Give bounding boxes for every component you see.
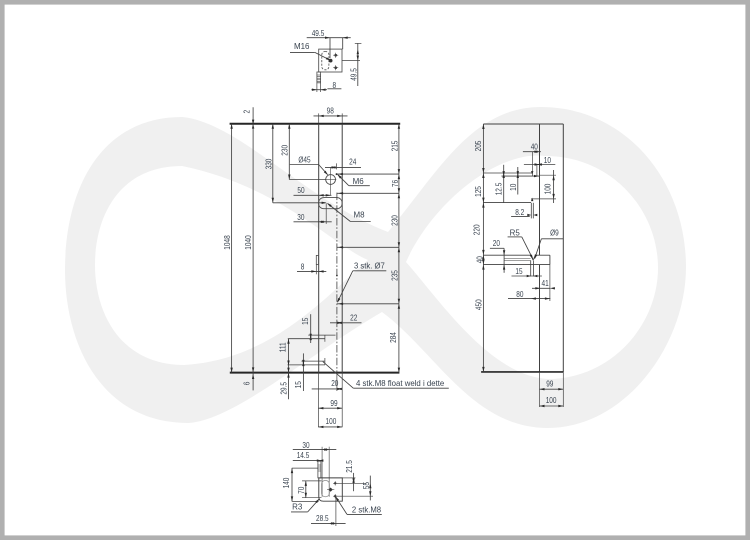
- bottom bracket slot: [322, 481, 330, 497]
- extension line bracket to vertical dim: [342, 60, 360, 62]
- svg-text:99: 99: [546, 379, 553, 389]
- side view top edge: [483, 123, 563, 125]
- svg-text:284: 284: [388, 332, 398, 343]
- side view plate left edge lower: [539, 265, 541, 372]
- stud tab bottom view: [318, 461, 321, 478]
- svg-text:M16: M16: [294, 42, 310, 51]
- bottom bracket lower line 2: [288, 364, 326, 366]
- svg-text:15: 15: [300, 318, 310, 325]
- svg-text:50: 50: [297, 185, 304, 195]
- gray frame right bar: [745, 0, 750, 540]
- svg-text:R3: R3: [292, 502, 303, 511]
- svg-text:450: 450: [474, 299, 484, 310]
- svg-text:100: 100: [325, 416, 336, 426]
- flange slot verticals below: [530, 261, 532, 277]
- extension line at slot center level with arrow: [273, 202, 326, 204]
- side boundary line at M6 level: [483, 172, 532, 174]
- gray frame bottom bar: [0, 535, 750, 540]
- svg-text:230: 230: [390, 215, 400, 226]
- main view lower extension lines: [317, 373, 319, 428]
- svg-text:Ø9: Ø9: [550, 228, 559, 238]
- extension line M6 column: [336, 163, 338, 169]
- svg-text:28.5: 28.5: [316, 513, 329, 523]
- dim 140 extension bottom: [292, 500, 319, 502]
- top detail hole upper: [334, 54, 337, 57]
- slot bracket front view stadium: [319, 198, 343, 209]
- svg-text:215: 215: [390, 141, 400, 152]
- svg-text:10: 10: [544, 155, 551, 165]
- boundary line 76-230: [337, 192, 399, 194]
- dim 55 extension lines: [335, 482, 366, 484]
- svg-text:49.5: 49.5: [349, 68, 359, 81]
- svg-text:Ø45: Ø45: [298, 155, 310, 165]
- svg-text:2 stk.M8: 2 stk.M8: [352, 505, 382, 514]
- svg-text:22: 22: [350, 313, 357, 323]
- gray frame left bar: [0, 0, 5, 540]
- side view bottom edge: [481, 371, 563, 373]
- svg-text:140: 140: [281, 478, 291, 489]
- svg-text:21.5: 21.5: [344, 460, 354, 473]
- threaded stud below bracket: [317, 72, 321, 83]
- svg-text:M6: M6: [353, 177, 365, 186]
- side view lower extension lines: [539, 372, 541, 407]
- side dim stack line: [482, 124, 484, 372]
- flange stud hidden lines: [504, 257, 530, 259]
- gray frame top bar: [0, 0, 750, 5]
- svg-text:49.5: 49.5: [312, 28, 325, 38]
- tab extension line down: [315, 265, 317, 275]
- svg-text:230: 230: [280, 145, 290, 156]
- side marker arrows on slot: [531, 171, 533, 175]
- centerline of holes dash-dot: [336, 193, 338, 373]
- svg-text:24: 24: [349, 156, 356, 166]
- side boundary line 125-220: [483, 202, 531, 204]
- svg-text:1048: 1048: [222, 235, 232, 249]
- svg-text:29.5: 29.5: [279, 382, 289, 395]
- svg-text:14.5: 14.5: [297, 450, 310, 460]
- svg-text:220: 220: [472, 224, 482, 235]
- svg-text:111: 111: [278, 342, 288, 352]
- svg-text:41: 41: [541, 278, 548, 288]
- svg-text:100: 100: [543, 184, 553, 195]
- bottom bracket plate right edge: [324, 335, 326, 342]
- svg-text:20: 20: [493, 238, 500, 248]
- svg-text:6: 6: [242, 382, 252, 386]
- svg-text:10: 10: [508, 184, 518, 191]
- hole mark on centerline mid: [336, 275, 338, 277]
- top detail M16 center mark: [329, 59, 333, 63]
- svg-text:20: 20: [331, 378, 338, 388]
- right dim stack line: [398, 124, 400, 373]
- svg-text:15: 15: [293, 381, 303, 388]
- svg-text:8: 8: [301, 261, 305, 271]
- side feature line below M6: [502, 175, 540, 177]
- svg-text:80: 80: [516, 289, 523, 299]
- bottom bracket top line 2: [288, 338, 325, 340]
- svg-text:8.2: 8.2: [515, 207, 524, 217]
- centerline extension bottom: [336, 373, 338, 391]
- svg-text:M8: M8: [353, 210, 365, 219]
- bottom bracket lower line 1: [302, 360, 326, 362]
- bottom bracket plate right edge lower: [324, 358, 326, 365]
- svg-text:125: 125: [473, 186, 483, 197]
- flange bottom line: [483, 264, 550, 266]
- hole circle d45: [326, 175, 336, 185]
- bottom bracket outline: [319, 478, 343, 501]
- svg-text:3 stk. Ø7: 3 stk. Ø7: [354, 261, 385, 270]
- svg-text:4 stk.M8 float weld i dette: 4 stk.M8 float weld i dette: [356, 379, 445, 388]
- bottom studs: [334, 482, 336, 484]
- flange right end: [549, 255, 551, 264]
- bottom view plate edge lines: [321, 447, 323, 497]
- tab on left edge 8mm: [316, 255, 318, 264]
- svg-text:15: 15: [515, 266, 522, 276]
- flange notch: [531, 255, 533, 260]
- extension line right of dim 49.5: [342, 38, 344, 50]
- side view plate right edge: [562, 124, 564, 372]
- flange top line: [483, 254, 530, 256]
- svg-text:R5: R5: [510, 228, 521, 237]
- svg-text:12.5: 12.5: [494, 183, 504, 196]
- main part left edge: [318, 124, 320, 373]
- svg-text:235: 235: [390, 270, 400, 281]
- side view plate left edge upper: [539, 124, 541, 255]
- hole center cross: [325, 179, 336, 181]
- top detail hole lower: [334, 66, 337, 69]
- M6 hole mark: [336, 173, 338, 175]
- svg-text:30: 30: [297, 212, 304, 222]
- stud extension lines down: [316, 83, 318, 92]
- dim 140 extension top: [292, 467, 318, 469]
- extension line flange end down: [549, 265, 551, 301]
- boundary line 215-76 at M6 level: [337, 173, 399, 175]
- watermark infinity logo: [65, 107, 686, 428]
- extension line below slot arrow: [325, 203, 327, 224]
- svg-text:330: 330: [264, 159, 274, 170]
- bottom bracket top line 1: [308, 334, 335, 336]
- bracket plate slot in side view: [530, 203, 532, 219]
- svg-text:30: 30: [302, 440, 309, 450]
- main part bottom edge: [230, 372, 400, 374]
- svg-text:40: 40: [474, 256, 484, 263]
- extension line stud center down: [335, 498, 337, 527]
- boundary line 235-284: [337, 303, 399, 305]
- svg-text:98: 98: [327, 105, 334, 115]
- main part right edge: [341, 124, 343, 373]
- svg-text:100: 100: [546, 395, 557, 405]
- main part top edge: [230, 123, 401, 125]
- svg-text:40: 40: [531, 142, 538, 152]
- extension line from dim 49.5 to M16 center: [329, 38, 331, 58]
- svg-text:205: 205: [473, 141, 483, 152]
- top detail slot hidden contour: [322, 52, 329, 70]
- extension line at hole center level: [289, 179, 325, 181]
- svg-text:2: 2: [241, 110, 251, 114]
- svg-text:1040: 1040: [243, 235, 253, 249]
- boundary line 230-235: [337, 246, 399, 248]
- svg-text:76: 76: [390, 180, 400, 187]
- svg-text:99: 99: [330, 398, 337, 408]
- bottom view center mark: [329, 488, 333, 492]
- top detail bracket outline: [319, 49, 342, 72]
- extension lines for 100: [540, 174, 557, 176]
